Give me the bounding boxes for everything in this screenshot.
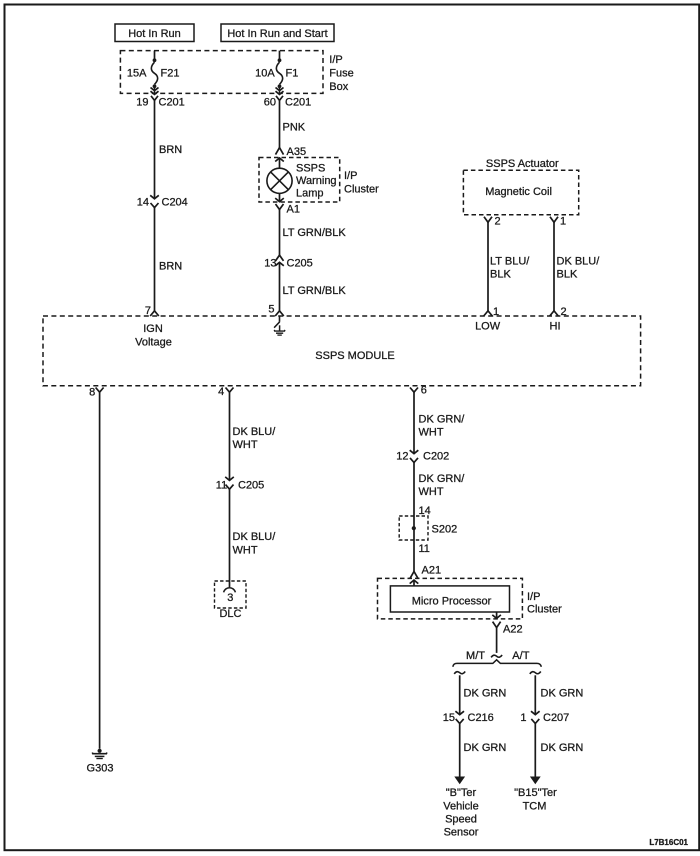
svg-text:I/P: I/P: [527, 591, 540, 603]
svg-text:F1: F1: [286, 67, 299, 79]
svg-text:DK BLU/: DK BLU/: [233, 426, 277, 438]
svg-text:3: 3: [227, 592, 233, 604]
svg-text:19: 19: [136, 96, 148, 108]
svg-text:DK GRN: DK GRN: [464, 742, 507, 754]
svg-text:Fuse: Fuse: [329, 68, 353, 80]
svg-text:Speed: Speed: [445, 813, 477, 825]
svg-text:HI: HI: [550, 320, 561, 332]
svg-text:L7B16C01: L7B16C01: [649, 838, 688, 847]
svg-text:Lamp: Lamp: [296, 188, 324, 200]
svg-text:"B"Ter: "B"Ter: [446, 787, 477, 799]
svg-text:WHT: WHT: [419, 486, 444, 498]
svg-text:WHT: WHT: [419, 427, 444, 439]
svg-text:DK BLU/: DK BLU/: [557, 255, 601, 267]
svg-text:14: 14: [419, 505, 431, 517]
svg-text:DK GRN/: DK GRN/: [419, 414, 466, 426]
svg-text:C201: C201: [159, 96, 185, 108]
svg-text:A1: A1: [287, 203, 300, 215]
svg-text:1: 1: [520, 712, 526, 724]
svg-text:Hot In Run and Start: Hot In Run and Start: [227, 28, 327, 40]
svg-text:C207: C207: [543, 712, 569, 724]
svg-text:60: 60: [264, 96, 276, 108]
svg-text:PNK: PNK: [283, 122, 306, 134]
svg-text:TCM: TCM: [523, 800, 547, 812]
svg-text:SSPS: SSPS: [296, 163, 325, 175]
svg-text:G303: G303: [87, 762, 114, 774]
svg-text:A22: A22: [503, 624, 523, 636]
svg-text:DK GRN: DK GRN: [464, 688, 507, 700]
svg-text:14: 14: [137, 196, 149, 208]
svg-text:Magnetic Coil: Magnetic Coil: [485, 186, 552, 198]
svg-text:Voltage: Voltage: [135, 336, 172, 348]
svg-text:F21: F21: [161, 67, 180, 79]
svg-text:Vehicle: Vehicle: [443, 800, 478, 812]
svg-text:DLC: DLC: [219, 608, 241, 620]
svg-text:13: 13: [264, 258, 276, 270]
svg-text:LOW: LOW: [475, 320, 501, 332]
svg-text:C201: C201: [285, 96, 311, 108]
svg-text:15A: 15A: [127, 67, 147, 79]
svg-text:M/T: M/T: [466, 650, 485, 662]
svg-text:Hot In Run: Hot In Run: [128, 28, 181, 40]
svg-text:C205: C205: [287, 258, 313, 270]
svg-text:12: 12: [396, 451, 408, 463]
svg-text:8: 8: [89, 386, 95, 398]
svg-text:A21: A21: [422, 564, 442, 576]
svg-text:C216: C216: [468, 712, 494, 724]
svg-text:4: 4: [218, 386, 224, 398]
svg-text:SSPS Actuator: SSPS Actuator: [486, 158, 559, 170]
svg-text:6: 6: [421, 385, 427, 397]
svg-text:DK BLU/: DK BLU/: [233, 531, 277, 543]
svg-text:DK GRN: DK GRN: [541, 742, 584, 754]
svg-text:LT GRN/BLK: LT GRN/BLK: [283, 285, 347, 297]
svg-text:Cluster: Cluster: [527, 603, 562, 615]
svg-text:S202: S202: [432, 523, 458, 535]
svg-text:LT GRN/BLK: LT GRN/BLK: [283, 227, 347, 239]
svg-text:LT BLU/: LT BLU/: [490, 255, 530, 267]
svg-text:DK GRN: DK GRN: [541, 688, 584, 700]
svg-text:IGN: IGN: [143, 323, 163, 335]
svg-text:BLK: BLK: [557, 268, 578, 280]
svg-text:BRN: BRN: [159, 260, 182, 272]
svg-text:2: 2: [495, 215, 501, 227]
svg-text:1: 1: [560, 215, 566, 227]
svg-text:Warning: Warning: [296, 175, 337, 187]
svg-text:10A: 10A: [255, 67, 275, 79]
svg-text:DK GRN/: DK GRN/: [419, 473, 466, 485]
svg-text:A/T: A/T: [512, 650, 529, 662]
svg-text:15: 15: [443, 712, 455, 724]
svg-text:BLK: BLK: [490, 268, 511, 280]
svg-text:WHT: WHT: [233, 439, 258, 451]
svg-text:C204: C204: [162, 196, 188, 208]
svg-text:WHT: WHT: [233, 544, 258, 556]
svg-text:BRN: BRN: [159, 144, 182, 156]
svg-text:C205: C205: [238, 480, 264, 492]
svg-text:Sensor: Sensor: [444, 826, 479, 838]
svg-text:11: 11: [419, 543, 430, 555]
svg-text:Box: Box: [329, 81, 348, 93]
svg-text:11: 11: [216, 480, 227, 492]
svg-text:C202: C202: [423, 451, 449, 463]
svg-text:SSPS MODULE: SSPS MODULE: [315, 350, 394, 362]
svg-text:5: 5: [268, 304, 274, 316]
svg-text:A35: A35: [287, 146, 307, 158]
svg-text:Cluster: Cluster: [344, 184, 379, 196]
svg-text:Micro Processor: Micro Processor: [412, 595, 492, 607]
svg-text:"B15"Ter: "B15"Ter: [514, 787, 557, 799]
svg-text:I/P: I/P: [329, 54, 342, 66]
svg-text:I/P: I/P: [344, 170, 357, 182]
